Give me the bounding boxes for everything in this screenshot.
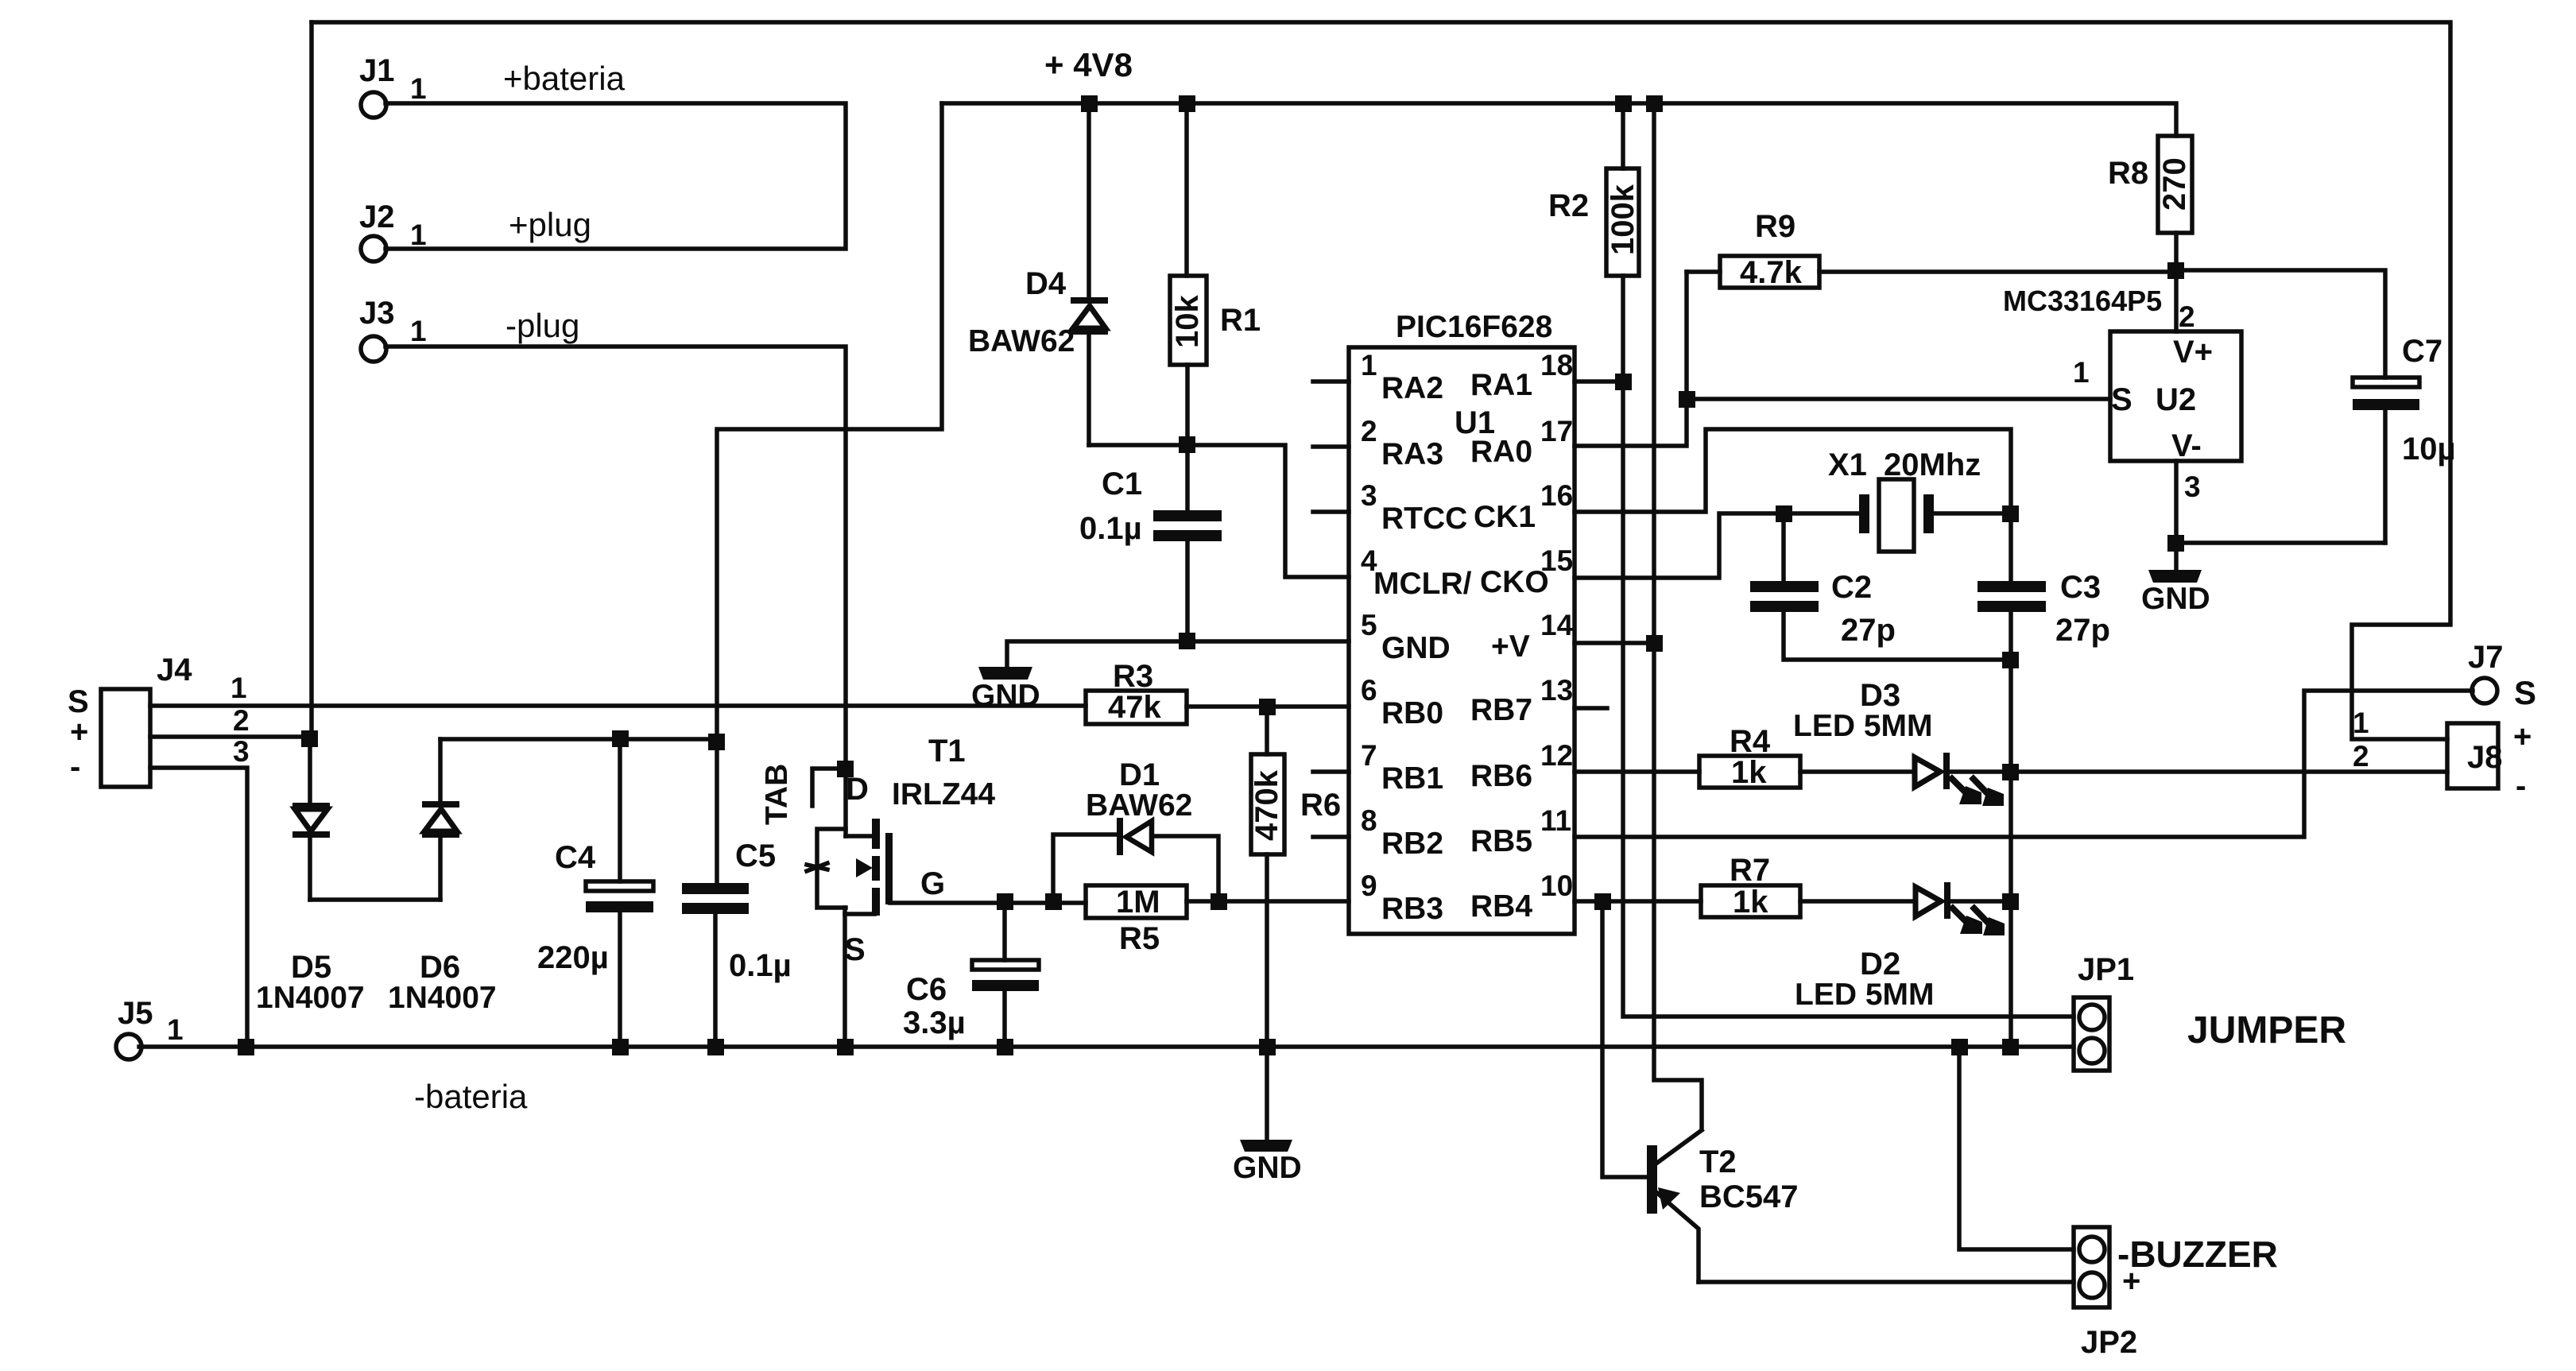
svg-text:-: - bbox=[2516, 769, 2526, 804]
svg-text:C4: C4 bbox=[555, 840, 596, 875]
transistor T1 IRLZ44 bbox=[807, 734, 995, 1047]
connector J3 bbox=[359, 296, 579, 362]
svg-text:17: 17 bbox=[1540, 415, 1573, 447]
svg-text:D4: D4 bbox=[1025, 266, 1067, 301]
wire U1 CK1 to crystal right bbox=[1575, 429, 2011, 513]
svg-text:11: 11 bbox=[1540, 804, 1571, 837]
wire J1 to J2 loop bbox=[385, 103, 846, 249]
svg-text:5: 5 bbox=[1361, 609, 1377, 641]
svg-text:+: + bbox=[2122, 1264, 2140, 1299]
resistor R3 47k bbox=[1086, 659, 1187, 725]
svg-text:D2: D2 bbox=[1860, 947, 1900, 982]
junction C6 ground bbox=[997, 1039, 1013, 1055]
svg-text:CK1: CK1 bbox=[1474, 500, 1536, 534]
junction RA1 / R2 / JP1 drop bbox=[1615, 374, 1632, 390]
svg-text:JUMPER: JUMPER bbox=[2187, 1009, 2346, 1051]
svg-text:-plug: -plug bbox=[506, 307, 579, 344]
wire V- node to C7 bottom bbox=[2176, 540, 2385, 545]
led D3 LED 5MM bbox=[1793, 678, 2447, 806]
diode D6 1N4007 bbox=[388, 739, 497, 1015]
svg-text:RB0: RB0 bbox=[1381, 696, 1443, 730]
wire +4V8 rail bbox=[942, 103, 2176, 136]
svg-text:RB7: RB7 bbox=[1470, 693, 1532, 727]
resistor R5 1M bbox=[1086, 885, 1187, 956]
led D2 LED 5MM bbox=[1795, 882, 2011, 1012]
junction C2/C3 ground drop bbox=[2002, 652, 2019, 668]
svg-text:R8: R8 bbox=[2108, 156, 2148, 191]
wire battery+ top rail to J8 bbox=[312, 22, 2450, 739]
svg-text:J1: J1 bbox=[359, 53, 395, 88]
svg-text:T2: T2 bbox=[1699, 1144, 1737, 1179]
svg-text:0.1µ: 0.1µ bbox=[1079, 511, 1142, 546]
wire R5 to U1 RB3 bbox=[1187, 899, 1349, 904]
diode D1 BAW62 bbox=[1053, 757, 1218, 901]
svg-text:1: 1 bbox=[410, 219, 427, 251]
svg-text:GND: GND bbox=[2141, 582, 2210, 616]
wire D5 to D6 bottom link bbox=[310, 897, 440, 902]
svg-text:J7: J7 bbox=[2468, 640, 2504, 675]
stub U1 pin 7 RB1 bbox=[1313, 769, 1349, 774]
svg-text:14: 14 bbox=[1540, 609, 1574, 641]
svg-text:U2: U2 bbox=[2156, 382, 2196, 417]
svg-text:1k: 1k bbox=[1731, 755, 1767, 790]
wire T1 gate row bbox=[890, 900, 1086, 905]
connector J2 bbox=[359, 199, 591, 261]
svg-text:+V: +V bbox=[1491, 629, 1530, 664]
svg-text:J8: J8 bbox=[2467, 740, 2503, 775]
junction D4 route / R1 / C1 bbox=[1179, 436, 1195, 453]
junction gate / D1 left bbox=[1045, 893, 1062, 910]
svg-text:1M: 1M bbox=[1116, 885, 1160, 920]
svg-text:J2: J2 bbox=[359, 199, 395, 234]
svg-text:R4: R4 bbox=[1730, 724, 1771, 759]
svg-text:MCLR/: MCLR/ bbox=[1373, 567, 1472, 601]
svg-text:1: 1 bbox=[410, 72, 427, 105]
ground symbol at U1 pin 5 bbox=[971, 667, 1040, 713]
svg-text:3: 3 bbox=[2184, 471, 2201, 503]
node +4V8 bbox=[1044, 46, 1133, 83]
svg-text:1: 1 bbox=[167, 1013, 184, 1046]
wire T2 emitter to JP2 pin2 bbox=[1699, 1280, 2074, 1284]
svg-text:1N4007: 1N4007 bbox=[388, 981, 497, 1015]
svg-text:8: 8 bbox=[1361, 804, 1377, 837]
svg-text:+: + bbox=[70, 715, 88, 749]
svg-text:+bateria: +bateria bbox=[503, 60, 626, 97]
crystal X1 20Mhz bbox=[1828, 447, 2011, 552]
svg-text:MC33164P5: MC33164P5 bbox=[2003, 285, 2162, 317]
svg-text:J3: J3 bbox=[359, 296, 395, 331]
stub U1 pin 13 RB7 bbox=[1575, 706, 1607, 711]
svg-text:BAW62: BAW62 bbox=[1086, 788, 1192, 823]
svg-text:270: 270 bbox=[2157, 157, 2192, 211]
svg-text:BC547: BC547 bbox=[1699, 1179, 1799, 1214]
wire D4/R1/C1 node to U1 MCLR bbox=[1089, 445, 1349, 577]
ic U1 PIC16F628 bbox=[1349, 310, 1575, 934]
svg-text:C5: C5 bbox=[735, 838, 776, 873]
svg-text:LED 5MM: LED 5MM bbox=[1793, 709, 1933, 743]
svg-text:100k: 100k bbox=[1606, 184, 1641, 255]
svg-text:C2: C2 bbox=[1831, 570, 1872, 605]
svg-text:3: 3 bbox=[1361, 479, 1377, 512]
wire R3 to U1 RB0 bbox=[1187, 704, 1349, 709]
svg-text:IRLZ44: IRLZ44 bbox=[892, 777, 995, 811]
svg-text:7: 7 bbox=[1361, 739, 1377, 772]
svg-text:S: S bbox=[844, 932, 866, 967]
svg-text:CKO: CKO bbox=[1480, 565, 1549, 599]
svg-text:G: G bbox=[920, 866, 945, 901]
svg-text:4.7k: 4.7k bbox=[1740, 255, 1803, 290]
svg-text:1N4007: 1N4007 bbox=[256, 981, 365, 1015]
junction RB4 / T2 base bbox=[1594, 893, 1611, 910]
svg-text:R5: R5 bbox=[1119, 921, 1160, 956]
resistor R2 100k bbox=[1548, 110, 1641, 381]
stub U1 pin 8 RB2 bbox=[1313, 835, 1349, 839]
svg-text:3.3µ: 3.3µ bbox=[903, 1005, 966, 1040]
junction J5 rail / J4 pin3 bbox=[238, 1039, 254, 1055]
header JP2 bbox=[2074, 1227, 2137, 1360]
svg-text:R3: R3 bbox=[1113, 659, 1153, 694]
TAB stub of T1 bbox=[760, 761, 854, 825]
svg-text:+ 4V8: + 4V8 bbox=[1044, 46, 1133, 83]
svg-text:C3: C3 bbox=[2060, 570, 2101, 605]
svg-text:-BUZZER: -BUZZER bbox=[2117, 1234, 2278, 1275]
svg-text:JP1: JP1 bbox=[2078, 952, 2134, 987]
wire J4 pin2 to D5 bbox=[150, 734, 309, 739]
wire U2 V- to ground node bbox=[2174, 461, 2179, 573]
svg-text:GND: GND bbox=[1233, 1151, 1302, 1185]
transistor T2 BC547 bbox=[1602, 901, 1799, 1282]
resistor R9 4.7k bbox=[1687, 209, 2176, 290]
junction rail / led cathode drop bbox=[2002, 1039, 2019, 1055]
wire R2 node down to JP1 pin1 bbox=[1623, 381, 2074, 1017]
svg-text:TAB: TAB bbox=[760, 764, 794, 825]
svg-text:X1: X1 bbox=[1828, 447, 1867, 482]
svg-text:47k: 47k bbox=[1108, 690, 1161, 725]
resistor R6 470k bbox=[1249, 707, 1341, 1143]
wire U1 RB4 to R7 bbox=[1575, 899, 1701, 904]
svg-text:PIC16F628: PIC16F628 bbox=[1396, 310, 1552, 344]
svg-text:2: 2 bbox=[233, 704, 250, 737]
junction C4 top bbox=[612, 730, 629, 747]
resistor R7 1k bbox=[1701, 853, 1912, 920]
wire buzzer drop to JP2 pin1 bbox=[1959, 1047, 2074, 1249]
junction on +4V8 rail at R1 bbox=[1179, 95, 1195, 112]
svg-text:RB2: RB2 bbox=[1381, 827, 1443, 861]
junction R8 / R9 / C7 / U2 V+ bbox=[2167, 262, 2184, 279]
svg-text:RB6: RB6 bbox=[1470, 759, 1532, 793]
svg-text:RA3: RA3 bbox=[1381, 437, 1443, 471]
capacitor C3 27p bbox=[1978, 513, 2110, 660]
svg-text:6: 6 bbox=[1361, 674, 1377, 707]
junction RB3 row / D1 right bbox=[1211, 893, 1227, 910]
svg-text:GND: GND bbox=[971, 679, 1040, 713]
connector J1 bbox=[359, 53, 626, 118]
svg-text:220µ: 220µ bbox=[537, 940, 609, 975]
junction on +4V8 rail at +V drop bbox=[1646, 95, 1663, 112]
svg-text:V+: V+ bbox=[2173, 335, 2213, 370]
svg-text:-bateria: -bateria bbox=[414, 1078, 528, 1115]
junction C4 ground bbox=[612, 1039, 629, 1055]
svg-text:RB1: RB1 bbox=[1381, 761, 1443, 796]
junction on +4V8 rail at R2 bbox=[1615, 95, 1632, 112]
wire J3 to T1 drain bbox=[385, 347, 846, 836]
junction rail / buzzer drop bbox=[1951, 1039, 1968, 1055]
wire U1 RA1 to R2 bbox=[1575, 379, 1623, 384]
svg-text:12: 12 bbox=[1540, 739, 1573, 772]
svg-text:1: 1 bbox=[2073, 356, 2090, 389]
svg-text:RTCC: RTCC bbox=[1381, 502, 1467, 536]
capacitor C1 0.1u bbox=[1079, 445, 1222, 641]
wire U1 +V pin to vertical bbox=[1575, 641, 1654, 645]
svg-text:18: 18 bbox=[1540, 349, 1573, 381]
junction T1 source ground bbox=[837, 1039, 854, 1055]
capacitor C5 0.1u bbox=[682, 838, 792, 1047]
svg-text:J5: J5 bbox=[118, 996, 153, 1031]
header JP1 bbox=[2074, 952, 2134, 1071]
wire C2/C3 node down to ground rail bbox=[2009, 660, 2013, 1047]
svg-text:S: S bbox=[2514, 674, 2536, 711]
svg-text:-: - bbox=[70, 749, 80, 784]
connector J4 bbox=[68, 653, 250, 787]
capacitor C2 27p bbox=[1750, 513, 2011, 660]
connector J8 bbox=[2353, 707, 2531, 804]
svg-text:RB4: RB4 bbox=[1470, 889, 1532, 924]
svg-text:0.1µ: 0.1µ bbox=[729, 948, 792, 983]
wire +V vertical to T2 collector bbox=[1654, 110, 1702, 1129]
node JUMPER bbox=[2187, 1009, 2346, 1051]
junction C1 bottom / GND row bbox=[1179, 633, 1195, 649]
svg-text:RA1: RA1 bbox=[1470, 368, 1532, 402]
junction U2 V- / C7 bottom bbox=[2167, 535, 2184, 552]
svg-text:1: 1 bbox=[1361, 349, 1377, 381]
svg-text:J4: J4 bbox=[157, 653, 192, 687]
capacitor C4 220u bbox=[537, 739, 653, 1047]
junction C5 ground bbox=[707, 1039, 724, 1055]
junction J4 pin2 / D5 / border drop bbox=[301, 730, 318, 747]
svg-text:JP2: JP2 bbox=[2081, 1325, 2137, 1360]
junction C5 top row bbox=[708, 734, 725, 750]
resistor R1 10k bbox=[1170, 110, 1261, 445]
svg-text:V-: V- bbox=[2171, 428, 2202, 463]
junction crystal left / C2 bbox=[1776, 505, 1792, 522]
svg-text:LED 5MM: LED 5MM bbox=[1795, 978, 1935, 1012]
svg-text:3: 3 bbox=[233, 735, 250, 768]
svg-text:10: 10 bbox=[1540, 869, 1573, 902]
svg-text:2: 2 bbox=[1361, 415, 1377, 447]
svg-text:R2: R2 bbox=[1548, 188, 1589, 223]
svg-text:R6: R6 bbox=[1300, 788, 1341, 823]
wire D6 top to C4/C5 row bbox=[440, 737, 716, 742]
svg-text:RB5: RB5 bbox=[1470, 824, 1532, 858]
junction D3 cathode bbox=[2002, 764, 2019, 780]
svg-text:S: S bbox=[2111, 382, 2132, 417]
svg-text:D1: D1 bbox=[1119, 757, 1160, 792]
stub U1 pin 1 RA2 bbox=[1313, 379, 1349, 384]
capacitor C6 3.3u bbox=[903, 903, 1039, 1047]
node BUZZER bbox=[2117, 1234, 2278, 1299]
ic U2 MC33164P5 bbox=[2003, 285, 2241, 503]
svg-text:D5: D5 bbox=[291, 950, 331, 985]
svg-text:2: 2 bbox=[2353, 740, 2369, 773]
svg-text:R1: R1 bbox=[1220, 303, 1261, 338]
svg-text:10k: 10k bbox=[1170, 295, 1205, 348]
svg-text:1k: 1k bbox=[1733, 885, 1768, 920]
svg-text:C7: C7 bbox=[2402, 334, 2442, 369]
ground symbol below R6 bbox=[1233, 1140, 1302, 1185]
wire +4V8 rail drop to C4/C5 node bbox=[717, 103, 942, 883]
junction gate / C6 bbox=[997, 893, 1013, 910]
svg-text:1: 1 bbox=[230, 672, 247, 704]
diode D4 BAW62 bbox=[968, 110, 1108, 445]
svg-text:27p: 27p bbox=[2055, 613, 2110, 648]
wire ground rail bbox=[139, 1044, 2074, 1049]
svg-text:+: + bbox=[2513, 719, 2531, 754]
wire left drop from top rail to J4 pin 2 node bbox=[309, 22, 314, 738]
svg-text:1: 1 bbox=[2353, 707, 2369, 739]
junction RB0 / R6 bbox=[1259, 699, 1276, 715]
wire U1 GND pin row bbox=[1007, 641, 1349, 670]
wire J4 pin1 to R3 bbox=[150, 703, 1086, 708]
capacitor C7 10u bbox=[2176, 270, 2456, 543]
diode D5 1N4007 bbox=[256, 738, 365, 1015]
svg-text:RA2: RA2 bbox=[1381, 371, 1443, 405]
svg-text:R9: R9 bbox=[1755, 209, 1795, 244]
junction crystal right / C3 bbox=[2002, 505, 2019, 522]
svg-text:RA0: RA0 bbox=[1470, 435, 1532, 469]
svg-text:+plug: +plug bbox=[509, 206, 591, 243]
svg-text:16: 16 bbox=[1540, 479, 1573, 512]
svg-text:C1: C1 bbox=[1102, 467, 1142, 502]
svg-text:2: 2 bbox=[2179, 300, 2195, 333]
wire S node to U2 pin 1 bbox=[1687, 397, 2110, 401]
wire U1 CKO to crystal left bbox=[1575, 513, 1861, 578]
wire J4 pin3 down to ground rail bbox=[150, 768, 247, 1047]
junction S node bbox=[1679, 391, 1695, 408]
svg-text:9: 9 bbox=[1361, 869, 1377, 902]
svg-text:470k: 470k bbox=[1249, 769, 1284, 841]
svg-text:D3: D3 bbox=[1860, 678, 1900, 713]
wire U1 RB5 to J7 bbox=[1575, 691, 2473, 837]
svg-text:20Mhz: 20Mhz bbox=[1884, 447, 1981, 482]
wire U1 RB6 to R4 bbox=[1575, 769, 1699, 774]
junction D2 cathode bbox=[2002, 893, 2019, 910]
svg-text:BAW62: BAW62 bbox=[968, 324, 1075, 358]
connector J5 bbox=[116, 996, 184, 1059]
svg-text:R7: R7 bbox=[1730, 853, 1770, 888]
svg-text:RB3: RB3 bbox=[1381, 892, 1443, 926]
resistor R8 270 bbox=[2108, 136, 2192, 331]
stub U1 pin 3 RTCC bbox=[1313, 509, 1349, 514]
svg-text:GND: GND bbox=[1381, 631, 1451, 665]
resistor R4 1k bbox=[1699, 724, 1912, 790]
junction +V bbox=[1646, 635, 1663, 652]
svg-text:27p: 27p bbox=[1841, 613, 1896, 648]
svg-text:1: 1 bbox=[410, 315, 427, 347]
connector J7 bbox=[2468, 640, 2536, 711]
wire U1 RA0 to supervisor node bbox=[1575, 272, 1687, 446]
svg-text:C6: C6 bbox=[906, 972, 947, 1007]
svg-text:D6: D6 bbox=[420, 950, 460, 985]
ground symbol below U2 bbox=[2141, 570, 2210, 616]
node -bateria bbox=[414, 1078, 528, 1115]
svg-text:10µ: 10µ bbox=[2402, 432, 2456, 467]
junction on +4V8 rail at D4 bbox=[1081, 95, 1098, 112]
svg-text:T1: T1 bbox=[928, 734, 966, 769]
stub U1 pin 2 RA3 bbox=[1313, 444, 1349, 449]
svg-text:13: 13 bbox=[1540, 674, 1573, 707]
junction R6 ground rail bbox=[1259, 1039, 1276, 1055]
